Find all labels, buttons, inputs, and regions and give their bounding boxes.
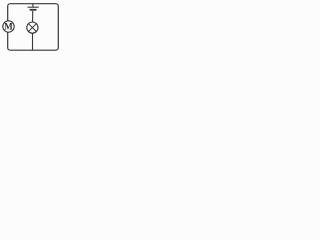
battery positive long plate — [28, 6, 39, 8]
battery B1: cell in middle branch — [28, 4, 39, 10]
lamp L1: circle with X — [27, 22, 38, 33]
wire: stub from top wire to positive plate — [32, 4, 34, 7]
motor M1: circle with letter M on left wire — [3, 21, 14, 32]
wire: from battery down to lamp — [32, 11, 34, 22]
wire: outer circuit loop — [8, 4, 59, 51]
battery negative short thick plate — [30, 9, 37, 11]
svg-text:M: M — [4, 22, 13, 32]
wire: from lamp down to bottom wire — [32, 33, 34, 50]
